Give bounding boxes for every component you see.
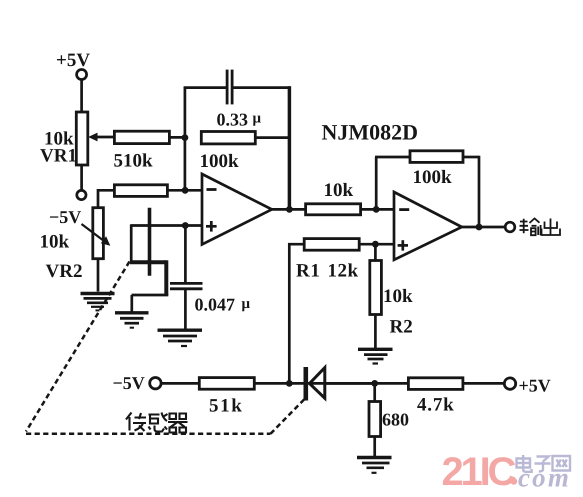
svg-text:51k: 51k (209, 396, 243, 417)
label 680 (382, 410, 409, 430)
node output feedback tap (476, 224, 483, 231)
svg-text:0.047: 0.047 (195, 295, 236, 315)
svg-text:0.33: 0.33 (217, 109, 249, 129)
resistor R2 10k (370, 261, 382, 315)
label 100k (feedback 2) (413, 167, 453, 188)
wire 100k to right vertical (255, 136, 289, 139)
ground G4 (under R2) (358, 349, 393, 363)
label 0.33u (217, 109, 262, 129)
char wang (553, 456, 571, 471)
wire feedback 2 left vertical (375, 157, 378, 209)
label +5V (bottom) (519, 376, 551, 396)
sensor body left drop (130, 224, 133, 262)
char qi (168, 414, 188, 433)
sensor body ground drop (130, 295, 133, 312)
potentiometer VR1 body (76, 112, 88, 165)
svg-text:μ: μ (253, 111, 262, 127)
wire R2 top (374, 244, 377, 260)
char chu (542, 219, 561, 236)
label sensor (chuan gan qi) (126, 413, 188, 433)
sensor body top shelf (130, 260, 166, 264)
terminal output (505, 222, 515, 232)
wire 510k to node A (169, 136, 186, 139)
logo dian zi wang (electronics net) (517, 455, 571, 472)
ground G2 (sensor) (115, 313, 149, 328)
label 510k (114, 151, 154, 172)
wire U1a output (272, 208, 306, 211)
label 10k (interstage) (324, 180, 354, 201)
wire 680 to ground (373, 437, 376, 457)
wire diode to node B (327, 382, 377, 385)
char gan (149, 413, 168, 432)
svg-text:21IC: 21IC (442, 450, 516, 494)
node noninverting input U1 (182, 222, 189, 229)
wire C2 to ground (184, 289, 187, 329)
wire R1 left riser (289, 244, 304, 383)
label output (shu chu) (520, 218, 561, 235)
svg-text:10k: 10k (40, 232, 70, 253)
wire inverting input row (167, 189, 202, 192)
ground G1 (under VR2) (81, 294, 115, 311)
wire top cap right (232, 86, 291, 89)
wire noninverting node down to C2 (184, 226, 187, 283)
svg-text:10k: 10k (383, 286, 413, 307)
terminal +5V bottom (504, 378, 515, 389)
char chuan (126, 413, 146, 432)
label 0.047u (195, 295, 251, 315)
wire noninverting input row (131, 224, 202, 227)
wire node B to 680 (373, 383, 376, 401)
wire 51k to diode (254, 382, 408, 385)
dashed sensor boundary diagonal left (26, 262, 130, 432)
char shu (right part yu) (530, 218, 541, 235)
char dian (517, 455, 532, 472)
resistor 510k (114, 131, 169, 143)
wire VR2 to inverting resistor (98, 190, 114, 207)
logo .com (510, 463, 571, 493)
resistor 680 (369, 402, 381, 437)
char shu (left radical che) (520, 219, 529, 234)
label VR2 (46, 261, 83, 282)
node A junction (feedback/inverting) (182, 134, 189, 141)
label -5V (under VR1) (49, 207, 81, 227)
ground G5 (under 680) (357, 458, 392, 473)
wire U1b output (462, 226, 505, 229)
wire R2 to ground (374, 315, 377, 349)
VR1 wiper arrow (88, 133, 113, 142)
svg-text:NJM082D: NJM082D (322, 120, 419, 145)
svg-text:−5V: −5V (49, 207, 81, 227)
svg-text:+5V: +5V (56, 50, 90, 71)
svg-text:R1: R1 (296, 261, 320, 282)
svg-text:−5V: −5V (113, 373, 145, 393)
svg-text:100k: 100k (200, 151, 240, 172)
capacitor C2 0.047u plates (170, 283, 203, 288)
svg-text:R2: R2 (390, 317, 413, 338)
label NJM082D (322, 120, 419, 145)
resistor 100k (feedback 2) (410, 151, 463, 163)
logo 21IC (442, 450, 516, 494)
wire -5V to 51k (161, 382, 200, 385)
label 100k (feedback 1) (200, 151, 240, 172)
label -5V (bottom) (113, 373, 145, 393)
node B (680/4.7k junction) (371, 380, 378, 387)
svg-text:4.7k: 4.7k (417, 395, 455, 416)
wire vertical feedback left (184, 87, 187, 191)
op-amp U1b (394, 192, 462, 260)
dashed sensor boundary bottom (26, 433, 271, 436)
terminal -5V bottom (150, 378, 161, 389)
wire feedback 2 top left (375, 156, 410, 159)
capacitor C1 0.33u plates (227, 70, 232, 105)
label 51k (209, 396, 243, 417)
VR2 adjust arrow (82, 224, 111, 246)
wire 4.7k to +5V terminal (463, 382, 505, 385)
svg-text:VR2: VR2 (46, 261, 83, 282)
terminal +5V top (77, 70, 87, 80)
node inverting input U1 (182, 187, 189, 194)
label 10k (VR2) (40, 232, 70, 253)
label +5V (top left) (56, 50, 90, 71)
sensor body bottom shelf (132, 294, 169, 297)
svg-text:100k: 100k (413, 167, 453, 188)
svg-text:VR1: VR1 (40, 146, 77, 167)
ground G3 (under C2) (158, 330, 203, 346)
svg-text:12k: 12k (328, 261, 359, 282)
diode D1 (306, 367, 325, 401)
svg-text:680: 680 (382, 410, 409, 430)
label 4.7k (417, 395, 455, 416)
label 10k (R2) (383, 286, 413, 307)
svg-text:+5V: +5V (519, 376, 551, 396)
wire VR2 bottom to ground (97, 259, 100, 292)
node U1b inverting (373, 206, 380, 213)
sensor body right wall (164, 260, 168, 295)
terminal -5V (under VR1) (77, 190, 86, 199)
label 10k (VR1) (44, 129, 74, 150)
node U1a output (286, 206, 293, 213)
wire top cap left (184, 86, 227, 89)
label R1 12k (296, 261, 359, 282)
svg-text:μ: μ (242, 296, 251, 312)
resistor 4.7k (408, 378, 463, 390)
wire feedback right vertical (288, 86, 292, 210)
resistor 10k interstage (306, 204, 361, 215)
potentiometer VR2 body (93, 208, 104, 259)
node U1b noninverting (372, 241, 379, 248)
op-amp U1a (202, 174, 272, 244)
wire R1 to U1b noninverting (359, 243, 394, 246)
svg-text:10k: 10k (324, 180, 354, 201)
resistor 100k (feedback 1) (201, 132, 255, 144)
wire feedback 2 right vertical (478, 156, 481, 227)
resistor to inverting input (114, 185, 167, 197)
label VR1 (40, 146, 77, 167)
label R2 (390, 317, 413, 338)
dashed sensor boundary diagonal right (271, 397, 308, 434)
resistor R1 12k (304, 239, 359, 251)
wire 10k to U1b inverting (361, 208, 394, 211)
wire VR1 bottom to -5V terminal (80, 165, 83, 190)
node riser/bottom wire (286, 380, 293, 387)
char zi (535, 457, 551, 472)
wire feedback 2 top right (463, 156, 479, 159)
wire terminal to VR1 (80, 79, 83, 112)
svg-text:510k: 510k (114, 151, 154, 172)
sensor electrode (vertical probe) (148, 208, 152, 276)
resistor 51k (199, 378, 254, 390)
